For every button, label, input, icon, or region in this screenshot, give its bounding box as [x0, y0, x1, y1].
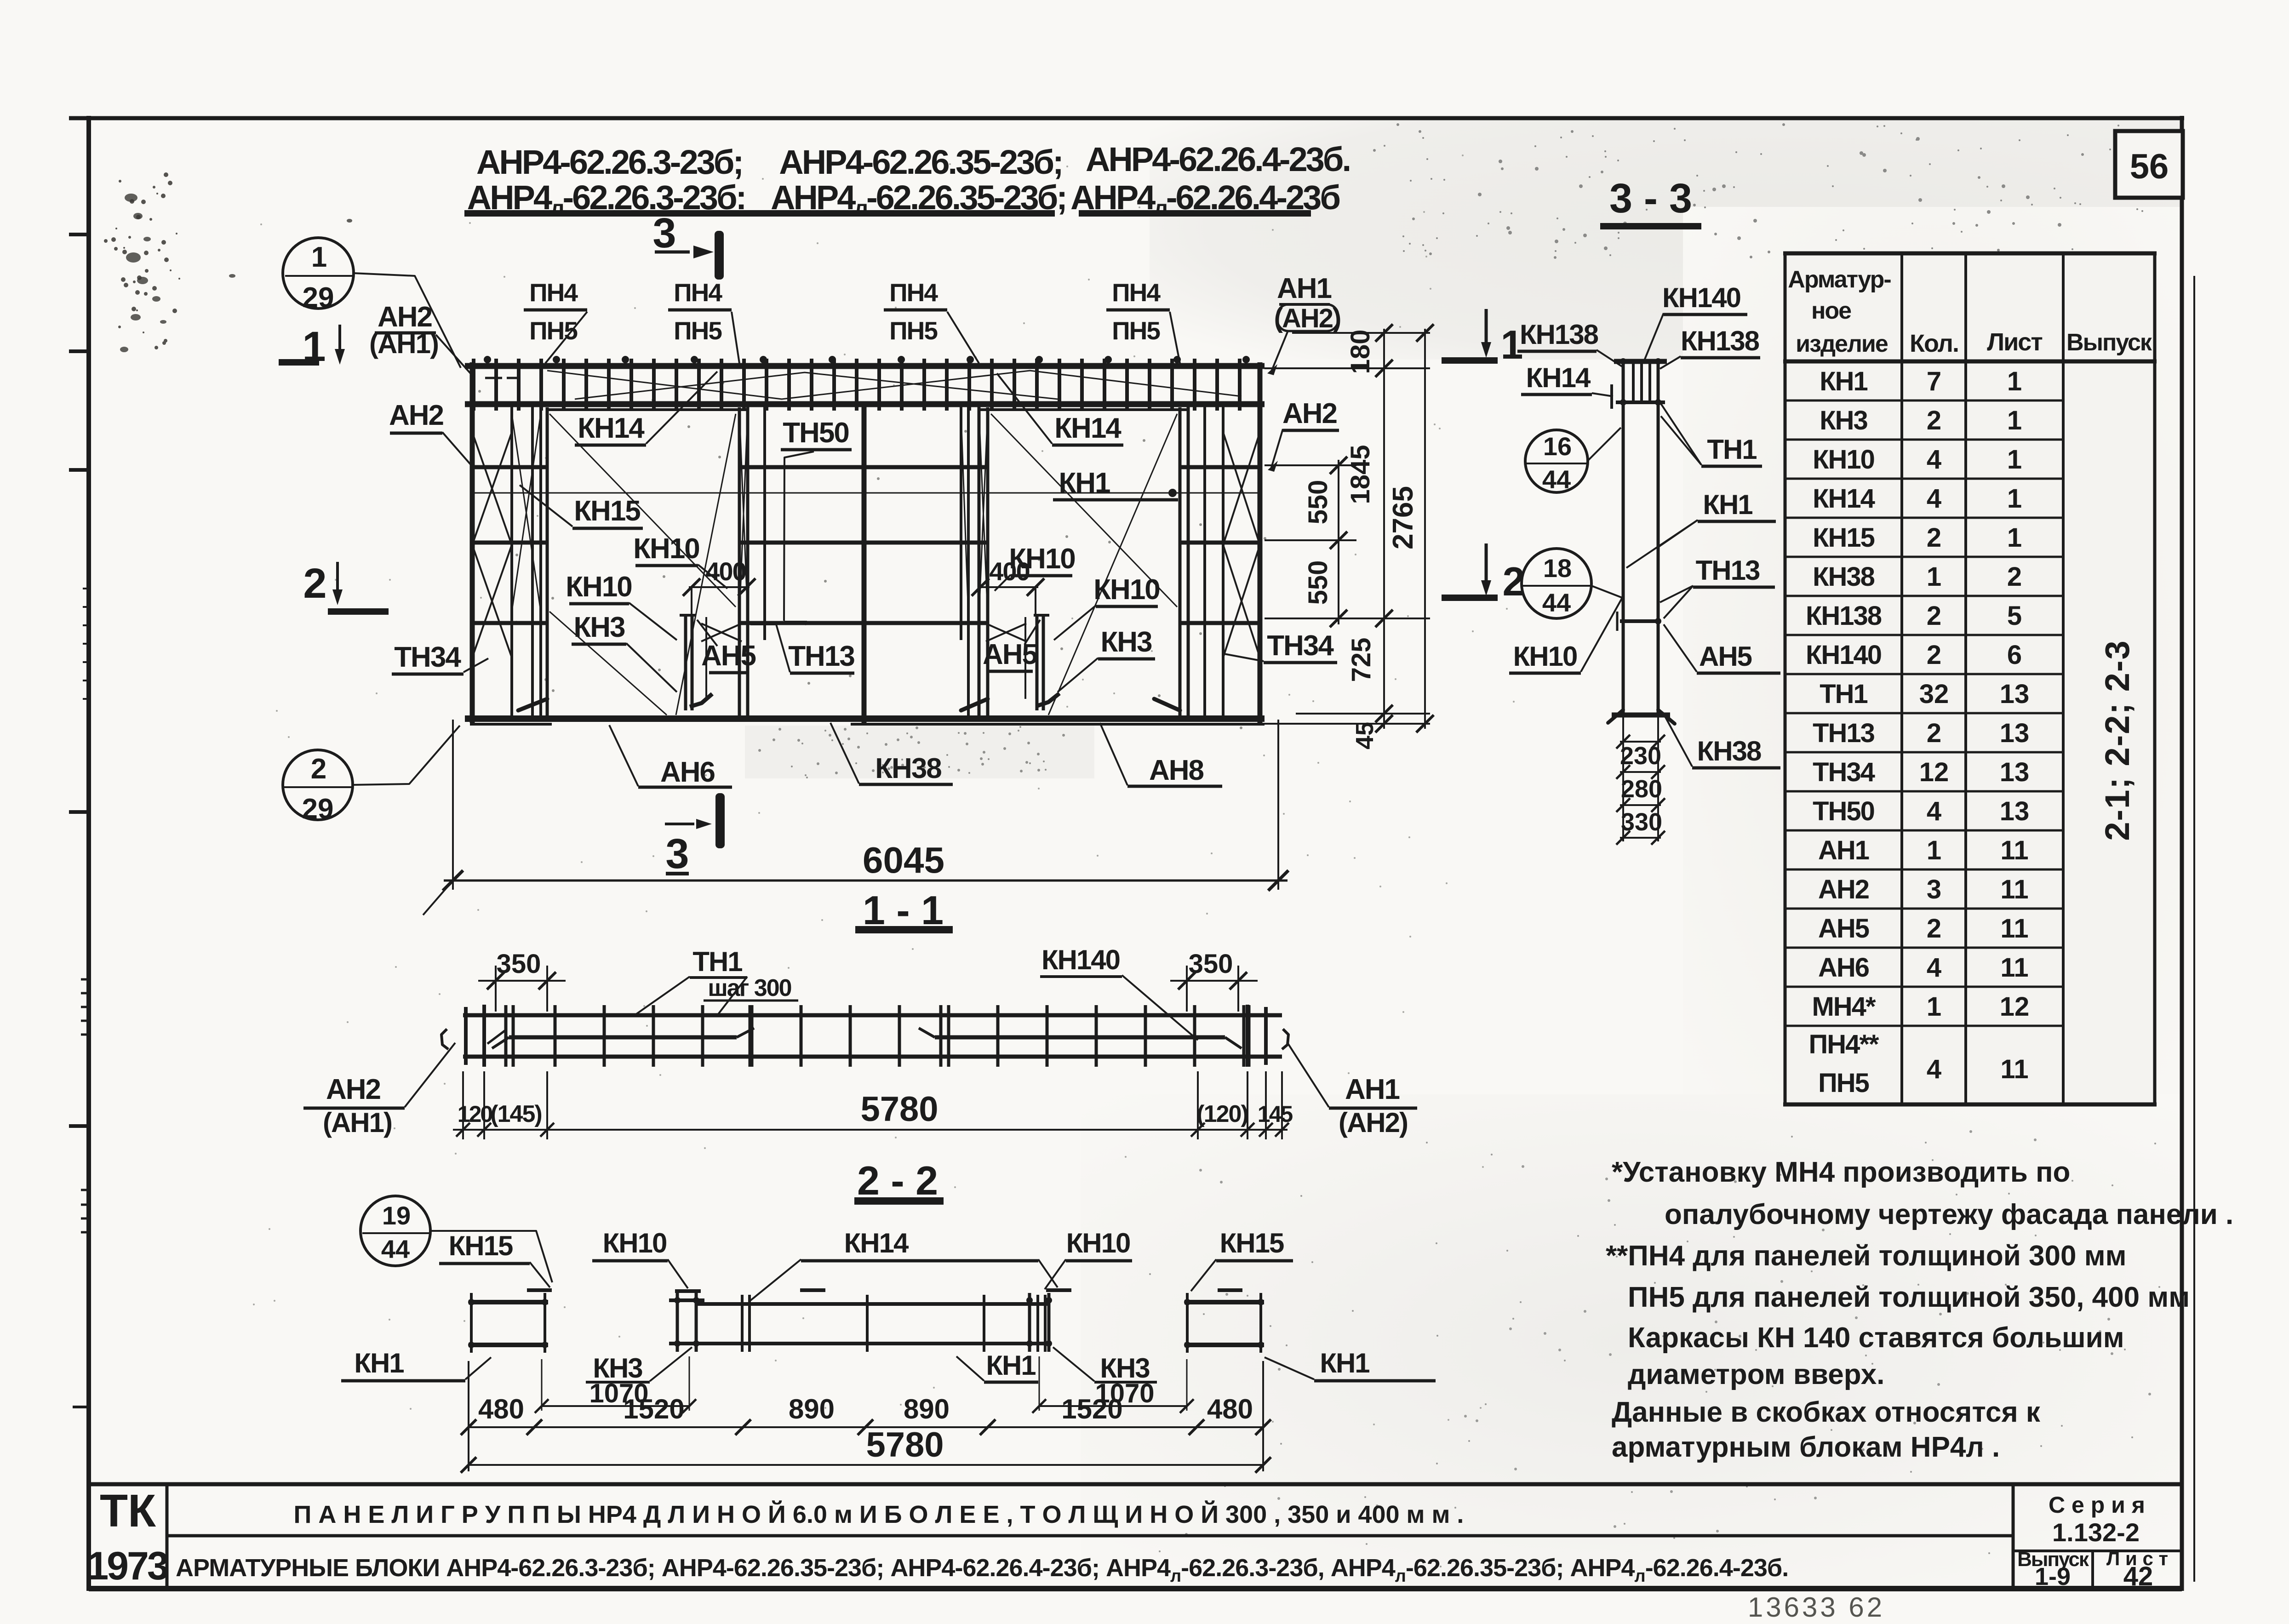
- svg-text:КН140: КН140: [1806, 640, 1881, 670]
- svg-text:12: 12: [2000, 992, 2030, 1022]
- svg-text:ТН34: ТН34: [394, 641, 461, 673]
- svg-text:АН6: АН6: [1818, 953, 1869, 983]
- right dim line 2765: [1424, 329, 1426, 729]
- svg-text:ТН34: ТН34: [1813, 757, 1875, 787]
- 1-1 bottom dims: [462, 1071, 464, 1139]
- svg-text:КН15: КН15: [1220, 1228, 1284, 1258]
- table rows: [1785, 400, 2063, 402]
- scan dirt left edge: [125, 194, 137, 202]
- svg-text:2-1; 2-2; 2-3: 2-1; 2-2; 2-3: [2098, 640, 2136, 841]
- svg-text:44: 44: [381, 1235, 410, 1264]
- svg-text:(АН2): (АН2): [1274, 303, 1341, 333]
- callout circle 18/44: [1522, 549, 1591, 618]
- 1-1 left end piece: [464, 1007, 468, 1065]
- svg-text:ТК: ТК: [100, 1485, 156, 1537]
- svg-text:АН5: АН5: [701, 640, 756, 672]
- window bottom corner hooks: [518, 699, 547, 710]
- svg-text:КН38: КН38: [1813, 562, 1875, 592]
- svg-text:2: 2: [1927, 523, 1941, 553]
- svg-text:6045: 6045: [863, 840, 944, 881]
- svg-text:ТН13: ТН13: [788, 640, 854, 672]
- callout circle 19/44: [361, 1196, 430, 1266]
- svg-text:КН10: КН10: [1513, 641, 1577, 672]
- svg-text:2: 2: [1927, 640, 1941, 670]
- svg-text:11: 11: [2000, 914, 2028, 944]
- mid section verticals: [763, 404, 766, 640]
- svg-text:АН5: АН5: [1699, 641, 1752, 672]
- window 1 right edge pair: [738, 407, 741, 717]
- svg-text:1: 1: [2007, 366, 2022, 396]
- svg-text:1520: 1520: [623, 1394, 684, 1424]
- svg-text:АН2: АН2: [326, 1074, 380, 1105]
- svg-text:5780: 5780: [860, 1090, 938, 1129]
- 1-1 dim 350 right: [1186, 966, 1188, 1012]
- svg-text:3 - 3: 3 - 3: [1609, 176, 1692, 222]
- top chord bar-end dots: [484, 356, 491, 363]
- svg-text:ТН1: ТН1: [692, 946, 742, 977]
- svg-text:1: 1: [311, 241, 327, 273]
- svg-text:2: 2: [1503, 559, 1525, 604]
- 1-1 middle longitudinal bar segments: [509, 1035, 737, 1040]
- 2-2 right box KH15: [1185, 1300, 1264, 1304]
- window 1 lacing diagonals: [549, 414, 736, 607]
- svg-text:опалубочному чертежу фасада: опалубочному чертежу фасада панели .: [1665, 1199, 2233, 1230]
- svg-text:МН4*: МН4*: [1812, 992, 1876, 1022]
- title block: [89, 1482, 2182, 1487]
- 2-2 cage4: [1028, 1293, 1031, 1352]
- window 2 top edge: [979, 408, 1188, 411]
- svg-text:6: 6: [2007, 640, 2022, 670]
- 3-3 top cap: [1614, 359, 1667, 364]
- svg-text:44: 44: [1542, 588, 1571, 617]
- svg-text:1: 1: [2007, 484, 2022, 514]
- svg-text:330: 330: [1621, 808, 1662, 836]
- svg-text:КН10: КН10: [1066, 1228, 1130, 1258]
- svg-text:2: 2: [303, 560, 326, 607]
- 1-1 right end piece: [1246, 1005, 1249, 1067]
- svg-text:КН10: КН10: [603, 1228, 667, 1258]
- 3-3 mid connector: [1620, 619, 1661, 623]
- svg-text:29: 29: [303, 282, 334, 314]
- svg-text:АН1: АН1: [1818, 835, 1869, 865]
- right dims extension lines: [1292, 332, 1430, 334]
- svg-text:1: 1: [1501, 322, 1523, 367]
- svg-text:арматурным блокам НР4л .: арматурным блокам НР4л .: [1612, 1431, 2000, 1463]
- 2-2 left box KH15: [469, 1300, 548, 1304]
- svg-text:ТН13: ТН13: [1813, 718, 1875, 748]
- title underline: [464, 210, 1055, 217]
- svg-text:32: 32: [1919, 679, 1949, 709]
- svg-text:КН10: КН10: [1813, 445, 1874, 475]
- 400 dim window1: [689, 586, 750, 588]
- svg-text:145: 145: [1258, 1101, 1293, 1127]
- svg-text:АНР4-62.26.4-23б.: АНР4-62.26.4-23б.: [1086, 140, 1350, 178]
- svg-text:5780: 5780: [866, 1425, 944, 1464]
- svg-text:725: 725: [1346, 638, 1376, 682]
- left column verticals: [510, 404, 513, 720]
- svg-text:КН3: КН3: [1100, 626, 1152, 658]
- svg-text:КН140: КН140: [1041, 944, 1120, 975]
- svg-text:ПН4: ПН4: [889, 278, 938, 307]
- 2-2 dim chain: [469, 1426, 1263, 1428]
- svg-text:(АН1): (АН1): [323, 1107, 392, 1138]
- svg-text:4: 4: [1927, 484, 1941, 514]
- svg-text:КН138: КН138: [1681, 326, 1759, 356]
- svg-text:11: 11: [2000, 953, 2028, 983]
- 2-2 corner ticks: [468, 1299, 475, 1305]
- svg-text:13: 13: [2000, 757, 2030, 787]
- svg-text:350: 350: [1189, 949, 1233, 979]
- svg-text:ПН5: ПН5: [1818, 1068, 1869, 1098]
- svg-text:АН1: АН1: [1277, 273, 1332, 304]
- svg-text:(120): (120): [1196, 1101, 1248, 1127]
- svg-text:480: 480: [1207, 1394, 1253, 1424]
- svg-text:44: 44: [1542, 465, 1571, 494]
- svg-text:КН1: КН1: [1703, 489, 1752, 520]
- svg-text:19: 19: [382, 1201, 411, 1230]
- svg-text:**ПН4 для панелей толщиной: **ПН4 для панелей толщиной 300 мм: [1606, 1240, 2126, 1272]
- svg-text:П А Н Е Л И Г Р У П П Ы: П А Н Е Л И Г Р У П П Ы НР4 Д Л И Н О Й …: [294, 1500, 1464, 1528]
- svg-text:(145): (145): [490, 1101, 541, 1127]
- U-assembly window2 (AH5): [1036, 615, 1039, 710]
- svg-text:ПН4**: ПН4**: [1809, 1029, 1879, 1059]
- svg-text:42: 42: [2123, 1561, 2153, 1591]
- svg-text:180: 180: [1345, 330, 1375, 374]
- svg-text:ТН50: ТН50: [1813, 796, 1874, 826]
- svg-text:280: 280: [1621, 775, 1662, 803]
- svg-text:КН38: КН38: [1697, 736, 1761, 766]
- svg-text:1: 1: [1927, 992, 1941, 1022]
- 1-1 dim 350 left: [495, 966, 497, 1012]
- svg-text:С е р и я: С е р и я: [2049, 1492, 2145, 1518]
- svg-text:120: 120: [458, 1101, 492, 1127]
- main elevation: top chord band: [465, 363, 1265, 369]
- svg-text:КН10: КН10: [566, 571, 632, 603]
- svg-text:ПН5 для панелей толщиной 3: ПН5 для панелей толщиной 350, 400 мм: [1628, 1281, 2190, 1313]
- section 3-3 column element verticals: [1622, 360, 1625, 717]
- svg-text:2: 2: [1927, 914, 1941, 944]
- svg-text:3: 3: [652, 210, 676, 257]
- svg-text:КН14: КН14: [1054, 412, 1122, 444]
- svg-text:Каркасы КН 140 ставятся бол: Каркасы КН 140 ставятся большим: [1628, 1322, 2124, 1354]
- 3-3 KH140 box hatch: [1616, 400, 1665, 404]
- svg-text:КН15: КН15: [574, 495, 640, 527]
- svg-text:Лист: Лист: [1987, 328, 2042, 356]
- svg-text:Кол.: Кол.: [1910, 330, 1958, 357]
- svg-text:КН138: КН138: [1806, 601, 1882, 631]
- svg-text:1845: 1845: [1345, 445, 1375, 504]
- window 1 left edge: [546, 407, 549, 717]
- panel bottom chord: [465, 715, 1265, 722]
- svg-text:КН1: КН1: [354, 1348, 404, 1378]
- right dim line 180/1845/725/45: [1383, 329, 1385, 729]
- svg-text:2: 2: [1927, 406, 1941, 435]
- 3-3 KH14 tick: [1610, 384, 1613, 409]
- svg-text:ПН4: ПН4: [529, 278, 578, 307]
- svg-text:56: 56: [2130, 147, 2169, 186]
- svg-text:7: 7: [1927, 366, 1941, 396]
- svg-text:350: 350: [497, 949, 541, 979]
- svg-text:ПН4: ПН4: [1112, 278, 1161, 307]
- svg-text:45: 45: [1351, 722, 1379, 749]
- right dim line 550s: [1338, 460, 1339, 624]
- svg-text:400: 400: [705, 557, 745, 586]
- panel left edge vertical (thick): [470, 362, 475, 723]
- window 2 lacing diagonals: [991, 414, 1177, 607]
- svg-text:890: 890: [789, 1394, 835, 1424]
- 2-2 dim 5780: [469, 1464, 1263, 1466]
- svg-text:шаг 300: шаг 300: [708, 975, 791, 1001]
- svg-text:АН2: АН2: [1282, 398, 1337, 429]
- svg-text:1: 1: [1927, 562, 1941, 592]
- svg-text:ТН50: ТН50: [783, 417, 849, 449]
- svg-text:13: 13: [2000, 718, 2030, 748]
- svg-text:4: 4: [1927, 445, 1941, 475]
- svg-text:2765: 2765: [1387, 486, 1419, 549]
- svg-text:КН14: КН14: [578, 412, 645, 444]
- panel right edge vertical (thick): [1258, 362, 1263, 723]
- svg-text:Арматур-: Арматур-: [1788, 266, 1891, 293]
- 3-3 bottom cap: [1612, 713, 1670, 718]
- svg-text:ПН4: ПН4: [674, 278, 722, 307]
- svg-text:3: 3: [665, 830, 689, 877]
- svg-text:КН3: КН3: [573, 612, 625, 643]
- svg-text:КН10: КН10: [1009, 543, 1075, 575]
- top chord stirrup ticks: [472, 359, 475, 411]
- left margin ticks: [69, 233, 89, 236]
- svg-text:АН5: АН5: [983, 639, 1037, 670]
- right column verticals: [1203, 404, 1206, 720]
- svg-text:1.132-2: 1.132-2: [2052, 1518, 2140, 1547]
- svg-text:2: 2: [1927, 718, 1941, 748]
- svg-text:диаметром вверх.: диаметром вверх.: [1628, 1359, 1885, 1390]
- svg-text:*Установку МН4 производить: *Установку МН4 производить по: [1612, 1156, 2070, 1188]
- section marker down-2 (3-3 area): [1485, 543, 1488, 588]
- svg-text:КН3: КН3: [1820, 406, 1867, 435]
- svg-text:1520: 1520: [1061, 1394, 1122, 1424]
- svg-text:ПН5: ПН5: [1112, 316, 1160, 345]
- svg-text:1: 1: [1927, 835, 1941, 865]
- 2-2 cage2: [676, 1293, 679, 1352]
- svg-text:ТН34: ТН34: [1267, 630, 1334, 662]
- 1-1 double ticks: [512, 1005, 515, 1067]
- table: armature products: [1785, 253, 2155, 1104]
- svg-text:ТН1: ТН1: [1707, 434, 1757, 465]
- svg-text:ТН13: ТН13: [1696, 555, 1760, 586]
- svg-text:18: 18: [1543, 554, 1572, 583]
- 400 dim window2: [978, 586, 1038, 588]
- svg-text:4: 4: [1927, 1054, 1941, 1084]
- svg-text:(АН2): (АН2): [1339, 1107, 1408, 1138]
- window 2 right edge pair: [1179, 407, 1182, 717]
- 3-3 thickness dims 230/280/330: [1622, 717, 1624, 841]
- svg-text:КН1: КН1: [1320, 1348, 1369, 1378]
- page number box 56: [2115, 131, 2183, 198]
- svg-text:КН15: КН15: [1813, 523, 1875, 553]
- svg-text:1: 1: [2007, 523, 2022, 553]
- svg-text:29: 29: [302, 793, 334, 825]
- window 2 left edge pair: [978, 404, 981, 720]
- svg-text:КН10: КН10: [1093, 574, 1160, 606]
- svg-text:12: 12: [1919, 757, 1949, 787]
- svg-text:ПН5: ПН5: [674, 316, 722, 345]
- top chord thin lacing: [547, 371, 1242, 399]
- svg-text:КН138: КН138: [1520, 319, 1598, 350]
- svg-text:АНР4-62.26.35-23б;: АНР4-62.26.35-23б;: [779, 143, 1062, 181]
- left column x-bracing: [472, 432, 512, 545]
- svg-text:550: 550: [1303, 560, 1333, 605]
- section marker down-1 (3-3 area): [1485, 309, 1488, 349]
- svg-text:230: 230: [1620, 742, 1661, 770]
- svg-text:изделие: изделие: [1796, 331, 1888, 357]
- svg-text:ное: ное: [1811, 297, 1851, 324]
- 2-2 long flat bar: [696, 1302, 1049, 1306]
- drawing frame border: [69, 116, 2184, 120]
- svg-text:КН15: КН15: [449, 1230, 513, 1261]
- svg-text:КН140: КН140: [1662, 282, 1740, 313]
- svg-text:КН14: КН14: [844, 1228, 909, 1258]
- thin KH1 longitudinal bar y1072: [472, 492, 1260, 494]
- svg-text:550: 550: [1303, 480, 1333, 525]
- 1-1 stirrup ticks: [504, 1005, 508, 1067]
- svg-text:5: 5: [2007, 601, 2022, 631]
- svg-text:КН1: КН1: [1059, 467, 1110, 499]
- svg-text:АНР4-62.26.3-23б;: АНР4-62.26.3-23б;: [476, 143, 742, 181]
- svg-text:1-9: 1-9: [2035, 1563, 2071, 1590]
- svg-text:2 - 2: 2 - 2: [857, 1158, 938, 1203]
- svg-text:АН8: АН8: [1149, 755, 1204, 786]
- svg-text:АН2: АН2: [389, 400, 443, 431]
- svg-text:КН1: КН1: [986, 1350, 1036, 1381]
- callout circle 1/29: [283, 238, 354, 309]
- svg-text:13: 13: [2000, 679, 2030, 709]
- svg-text:ПН5: ПН5: [529, 316, 578, 345]
- svg-text:11: 11: [2000, 875, 2028, 904]
- callout circle 2/29: [283, 750, 353, 820]
- svg-text:11: 11: [2000, 1054, 2028, 1084]
- svg-text:16: 16: [1543, 432, 1572, 461]
- svg-text:4: 4: [1927, 796, 1941, 826]
- svg-text:480: 480: [478, 1394, 524, 1424]
- horizontal chord y1180: [470, 541, 547, 545]
- svg-text:АН1: АН1: [1345, 1074, 1400, 1105]
- svg-text:13633 62: 13633 62: [1748, 1592, 1885, 1623]
- U-assembly window1 (AH5): [684, 615, 687, 710]
- callout circle 16/44: [1525, 430, 1588, 492]
- svg-text:ТН1: ТН1: [1820, 679, 1867, 709]
- svg-text:1973: 1973: [86, 1544, 167, 1588]
- svg-text:КН38: КН38: [875, 753, 941, 784]
- svg-text:1: 1: [2007, 406, 2022, 435]
- svg-text:АН5: АН5: [1818, 914, 1869, 944]
- svg-text:Данные в скобках относятся: Данные в скобках относятся к: [1612, 1396, 2041, 1428]
- horizontal chord y1355: [470, 621, 547, 625]
- right column x-bracing: [1223, 432, 1260, 545]
- svg-text:2: 2: [2007, 562, 2022, 592]
- dim 6045: [452, 720, 454, 890]
- svg-text:КН14: КН14: [1813, 484, 1875, 514]
- svg-text:2: 2: [311, 753, 326, 785]
- svg-text:3: 3: [1927, 875, 1941, 904]
- svg-text:АН2: АН2: [1818, 875, 1869, 904]
- svg-text:Выпуск: Выпуск: [2066, 329, 2152, 356]
- svg-text:13: 13: [2000, 796, 2030, 826]
- svg-text:890: 890: [904, 1394, 950, 1424]
- svg-text:ПН5: ПН5: [889, 316, 938, 345]
- window 1 top edge: [547, 408, 748, 411]
- svg-text:2: 2: [1927, 601, 1941, 631]
- 2-2 top bar overhang ticks: [527, 1288, 552, 1292]
- svg-text:КН1: КН1: [1820, 366, 1867, 396]
- svg-text:4: 4: [1927, 953, 1941, 983]
- svg-text:АН6: АН6: [660, 756, 715, 788]
- scan speckles: [1957, 149, 1959, 151]
- svg-text:1: 1: [2007, 445, 2022, 475]
- svg-text:КН14: КН14: [1526, 362, 1591, 393]
- svg-text:КН10: КН10: [633, 533, 699, 565]
- svg-text:11: 11: [2000, 835, 2028, 865]
- svg-text:АРМАТУРНЫЕ БЛОКИ АНР4-62.26.: АРМАТУРНЫЕ БЛОКИ АНР4-62.26.3-23б; АНР4-…: [176, 1554, 1788, 1586]
- 2-2 bar ticks: [741, 1295, 744, 1352]
- horizontal chord y1016: [470, 465, 547, 469]
- 1-1 beam band: [463, 1013, 1282, 1018]
